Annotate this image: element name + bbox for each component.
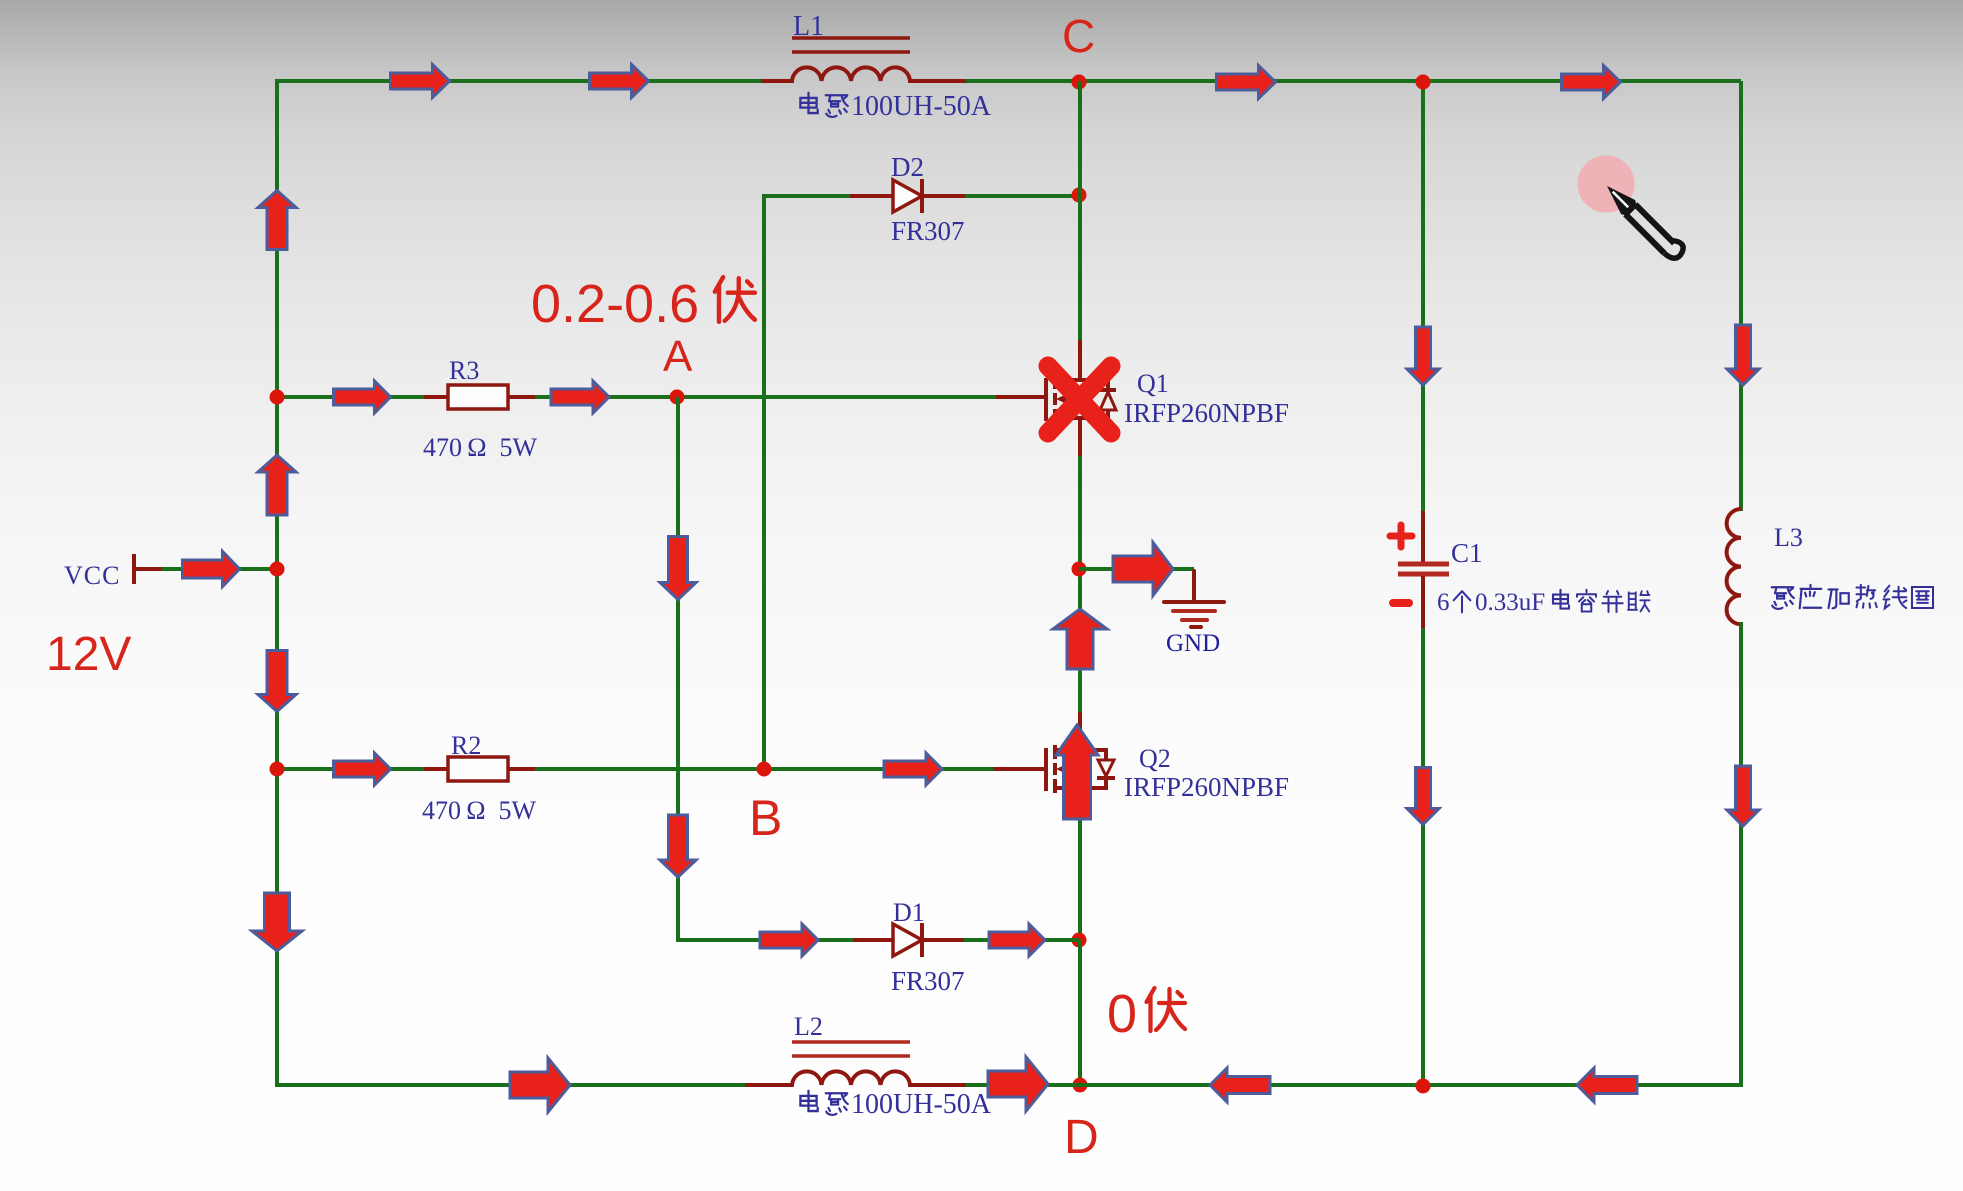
diode D1 cathode lead — [922, 938, 964, 942]
capacitor C1 — [1421, 511, 1425, 562]
wire D1 row right segment — [964, 938, 1080, 942]
junction dot node B — [757, 762, 772, 777]
wire D1 row corner from A column — [678, 938, 853, 942]
wire D2 row right segment — [965, 194, 1080, 198]
svg-text:IRFP260NPBF: IRFP260NPBF — [1124, 398, 1289, 428]
current arrow left rail up 1 — [258, 191, 296, 250]
diode D1 — [893, 924, 922, 956]
svg-text:FR307: FR307 — [891, 966, 965, 996]
svg-text:L1: L1 — [793, 11, 824, 42]
svg-text:0.2-0.6: 0.2-0.6 — [531, 274, 699, 334]
junction dot node D — [1073, 1078, 1088, 1093]
diode D1 anode lead — [853, 938, 893, 942]
wire R3 row left segment — [277, 395, 424, 399]
current arrow bottom rail left 1 — [1210, 1068, 1270, 1102]
svg-text:Q2: Q2 — [1139, 744, 1171, 773]
wire top rail from L1 to right corner — [966, 79, 1741, 83]
svg-text:R3: R3 — [449, 356, 479, 385]
current arrow left rail down big — [252, 893, 302, 951]
svg-text:D2: D2 — [891, 152, 924, 182]
wire R2 row node B to Q2 gate — [535, 767, 993, 771]
wire R3 row node A to Q1 gate — [535, 395, 996, 399]
current arrow L3 column down 1 — [1727, 325, 1759, 385]
svg-text:C1: C1 — [1451, 538, 1483, 568]
current arrow D1 row 2 — [989, 924, 1045, 956]
wire R2 row left segment — [277, 767, 424, 771]
current arrow through Q2 big up — [1056, 725, 1098, 819]
junction dot node A — [670, 390, 685, 405]
transistor Q2 top lead — [1078, 712, 1082, 751]
svg-text:VCC: VCC — [64, 561, 120, 590]
wire VCC to left rail — [162, 567, 277, 571]
current arrow top rail 4 — [1562, 66, 1621, 99]
current arrow D1 row 1 — [760, 924, 818, 956]
diode D2 cathode lead — [922, 194, 965, 198]
svg-text:12V: 12V — [46, 628, 131, 681]
inductor L1 core bars — [792, 36, 910, 40]
junction dot GND node — [1072, 562, 1087, 577]
label L1 value 电感100UH-50A — [800, 93, 817, 113]
current arrow top rail 1 — [391, 65, 450, 98]
junction dot C1 top node — [1416, 75, 1431, 90]
current arrow center column up to GND node — [1053, 609, 1107, 669]
svg-text:470 Ω 5W: 470 Ω 5W — [422, 796, 537, 825]
junction dot left rail R3 node — [270, 390, 285, 405]
junction dot C1 bottom node — [1416, 1079, 1431, 1094]
transistor Q1 IRFP260NPBF symbol — [996, 375, 1116, 425]
svg-text:Q1: Q1 — [1137, 369, 1169, 398]
capacitor C1 plus polarity mark — [1390, 525, 1412, 547]
transistor Q1 source lead — [1078, 425, 1082, 458]
capacitor C1 minus polarity mark — [1393, 599, 1409, 607]
transistor Q2 IRFP260NPBF symbol — [993, 745, 1115, 795]
svg-text:FR307: FR307 — [891, 216, 965, 246]
inductor L3 heating coil — [1727, 509, 1741, 624]
current arrow A column down 1 — [660, 537, 696, 600]
svg-text:100UH-50A: 100UH-50A — [851, 1089, 992, 1120]
presenter pen cursor with pink highlight — [1578, 156, 1687, 265]
inductor L1 — [761, 67, 966, 81]
svg-text:L2: L2 — [794, 1012, 823, 1041]
ground symbol — [1164, 571, 1224, 627]
wire left rail vertical (x=277) — [275, 79, 279, 1087]
svg-text:A: A — [663, 332, 693, 381]
junction dot D2-drain node — [1072, 188, 1087, 203]
svg-text:D: D — [1064, 1111, 1099, 1164]
resistor R3 — [424, 395, 448, 399]
wire L3 column top segment — [1739, 81, 1743, 511]
wire L3 column bottom segment — [1739, 622, 1743, 1087]
wire D2 row left segment — [764, 194, 850, 198]
current arrow bottom rail right big 2 — [988, 1057, 1048, 1111]
current arrow R3 row 1 — [334, 381, 391, 413]
current arrow R3 row 2 — [551, 381, 609, 413]
current arrow top rail 3 — [1217, 66, 1276, 99]
svg-text:470 Ω 5W: 470 Ω 5W — [423, 433, 538, 462]
current arrow GND stub — [1113, 543, 1173, 596]
resistor R2 — [424, 767, 448, 771]
inductor L2 — [745, 1071, 966, 1085]
current arrow bottom rail left 2 — [1577, 1068, 1637, 1102]
diode D2 — [893, 180, 922, 212]
current arrow B row to Q2 gate — [884, 753, 942, 785]
wire bottom rail from L2 to D and right corner — [966, 1083, 1741, 1087]
wire C1 column top segment — [1421, 81, 1425, 513]
wire GND stub — [1079, 567, 1194, 571]
label L3 value 感应加热线圈 — [1772, 587, 1794, 609]
svg-text:IRFP260NPBF: IRFP260NPBF — [1124, 772, 1289, 802]
current arrow L3 column down 2 — [1727, 766, 1759, 826]
current arrow left rail up 2 — [258, 455, 296, 515]
current arrow VCC feed — [183, 552, 240, 587]
wire A column vertical — [676, 397, 680, 942]
wire center column D2 node to Q1 drain — [1078, 196, 1082, 340]
svg-text:0: 0 — [1107, 984, 1137, 1044]
current arrow left rail down 1 — [258, 651, 296, 712]
current arrow A column down 2 — [660, 815, 696, 877]
wire center column C to D2 node — [1078, 81, 1082, 196]
current arrow R2 row — [334, 753, 391, 785]
svg-text:D1: D1 — [893, 898, 925, 927]
wire center column Q2 to D1 node — [1078, 816, 1082, 942]
wire center column Q1 source to Q2 — [1078, 456, 1082, 712]
svg-text:6: 6 — [1437, 589, 1450, 616]
svg-text:0.33uF: 0.33uF — [1475, 589, 1545, 616]
svg-text:C: C — [1062, 10, 1095, 62]
inductor L2 core bars — [792, 1040, 910, 1044]
junction dot D1-drain node — [1072, 933, 1087, 948]
diode D2 anode lead — [850, 194, 893, 198]
current arrow C1 column down 2 — [1407, 768, 1439, 825]
junction dot left rail R2 node — [270, 762, 285, 777]
wire C1 column bottom segment — [1421, 628, 1425, 1087]
current arrow bottom rail right big 1 — [510, 1058, 570, 1112]
transistor Q2 bottom lead — [1078, 788, 1082, 818]
wire top rail left segment (VCC rail to L1) — [277, 79, 763, 83]
node C junction dot — [1072, 75, 1087, 90]
power port VCC pin — [132, 554, 136, 584]
current arrow C1 column down 1 — [1407, 327, 1439, 385]
wire center column to node D — [1078, 940, 1082, 1087]
junction dot VCC node — [270, 562, 285, 577]
svg-text:L3: L3 — [1774, 523, 1803, 552]
svg-text:B: B — [749, 790, 782, 846]
current arrow top rail 2 — [590, 65, 649, 98]
transistor Q1 drain lead — [1078, 340, 1082, 381]
label L2 value 电感100UH-50A — [800, 1091, 817, 1111]
svg-text:100UH-50A: 100UH-50A — [851, 91, 992, 122]
svg-text:GND: GND — [1166, 630, 1220, 657]
wire bottom rail left segment — [277, 1083, 747, 1087]
svg-text:R2: R2 — [451, 731, 481, 760]
wire D2 row left vertical riser corner to B column — [762, 194, 766, 771]
red X cross-out over Q1 — [1048, 366, 1111, 433]
